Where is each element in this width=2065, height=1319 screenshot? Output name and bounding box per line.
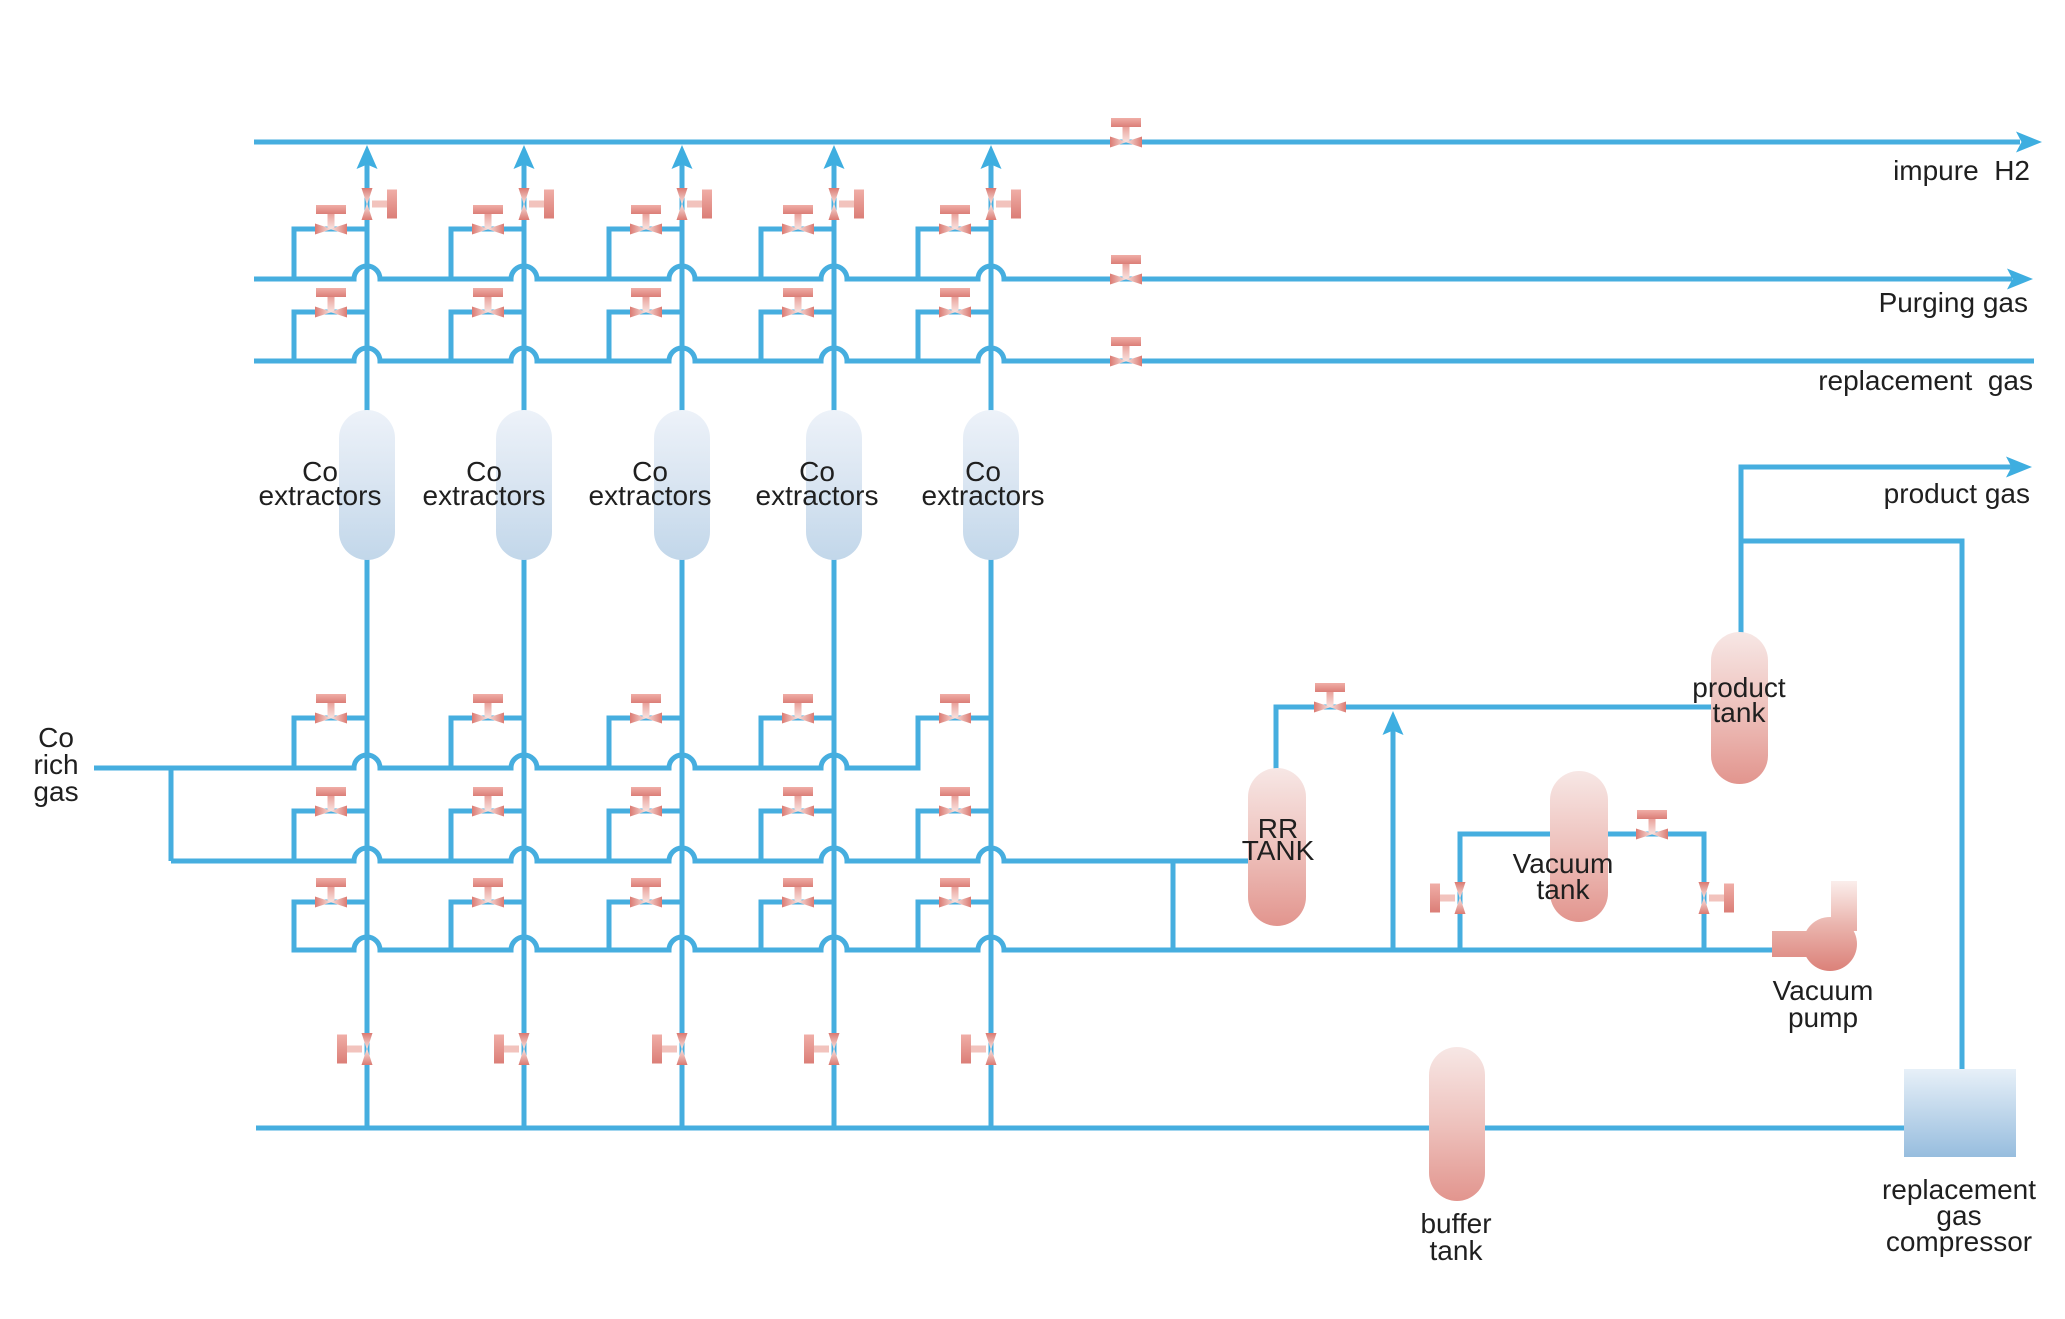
valve replacement gas header — [1110, 337, 1142, 367]
svg-text:Purging gas: Purging gas — [1879, 287, 2028, 318]
valve column 2 row2 branch — [472, 787, 504, 817]
valve column 3 row3 branch — [630, 878, 662, 908]
wire riser to product header with up arrow — [1391, 730, 1396, 950]
valve column 5 row1 branch — [939, 694, 971, 724]
valve column 5 purge branch — [939, 205, 971, 235]
vessel buffer tank — [1429, 1047, 1485, 1201]
wire column 5 row2 branch loop — [918, 811, 991, 861]
svg-text:extractors: extractors — [423, 480, 546, 511]
vessel Co extractor 1 — [339, 410, 395, 560]
wire column 4 replacement branch loop — [761, 312, 834, 361]
wire extractor column 5 upper vertical — [989, 158, 994, 424]
wire column 4 purge branch loop — [761, 229, 834, 279]
valve column 2 row3 branch — [472, 878, 504, 908]
wire column 1 replacement branch loop — [294, 312, 367, 361]
arrow impure H2 outlet — [2016, 132, 2042, 153]
valve vacuum loop right — [1699, 882, 1735, 914]
vessel Co extractor 4 — [806, 410, 862, 560]
svg-text:compressor: compressor — [1886, 1226, 2032, 1257]
valve column 3 purge branch — [630, 205, 662, 235]
wire column 3 replacement branch loop — [609, 312, 682, 361]
valve column 3 bottom isolation — [652, 1033, 688, 1065]
wire extractor column 2 upper vertical — [522, 158, 527, 424]
valve column 2 bottom isolation — [494, 1033, 530, 1065]
wire column 1 row2 branch loop — [294, 811, 367, 861]
valve column 4 row2 branch — [782, 787, 814, 817]
valve column 5 row3 branch — [939, 878, 971, 908]
svg-text:tank: tank — [1713, 697, 1767, 728]
wire extractor column 1 lower vertical — [365, 546, 370, 1128]
wire extractor column 3 upper vertical — [680, 158, 685, 424]
svg-text:gas: gas — [33, 776, 78, 807]
vessel vacuum tank — [1550, 771, 1608, 922]
arrow column 3 into impure H2 line — [672, 145, 693, 169]
valve vacuum loop top — [1636, 810, 1668, 840]
svg-text:extractors: extractors — [756, 480, 879, 511]
wire Co rich gas feed row 1 (ends rising into column 5 branch) — [94, 718, 991, 768]
valve column 4 replacement branch — [782, 288, 814, 318]
wire impure H2 header line — [254, 140, 2020, 145]
vessel RR tank — [1248, 768, 1306, 926]
valve column 1 purge branch — [315, 205, 347, 235]
valve column 5 row2 branch — [939, 787, 971, 817]
wire column 5 row3 branch loop — [918, 902, 991, 950]
svg-text:pump: pump — [1788, 1002, 1858, 1033]
wire product gas line and product tank riser — [1741, 467, 2012, 645]
wire vacuum tank loop — [1460, 834, 1704, 950]
valve column 4 purge branch — [782, 205, 814, 235]
wire column 3 row2 branch loop — [609, 811, 682, 861]
vessel Co extractor 2 — [496, 410, 552, 560]
svg-text:extractors: extractors — [922, 480, 1045, 511]
svg-text:replacement gas: replacement gas — [1818, 365, 2033, 396]
wire column 5 replacement branch loop — [918, 312, 991, 361]
valve column 4 row3 branch — [782, 878, 814, 908]
wire column 5 purge branch loop — [918, 229, 991, 279]
valve column 1 top isolation — [362, 188, 398, 220]
wire column 4 row2 branch loop — [761, 811, 834, 861]
valve column 2 purge branch — [472, 205, 504, 235]
valve column 2 top isolation — [519, 188, 555, 220]
compressor replacement gas compressor — [1904, 1069, 2016, 1157]
svg-text:tank: tank — [1430, 1235, 1484, 1266]
valve product header — [1314, 683, 1346, 713]
wire extractor column 5 lower vertical — [989, 546, 994, 1128]
valve column 1 row3 branch — [315, 878, 347, 908]
vessel Co extractor 3 — [654, 410, 710, 560]
valve column 3 row2 branch — [630, 787, 662, 817]
vessel Co extractor 5 — [963, 410, 1019, 560]
valve column 4 top isolation — [829, 188, 865, 220]
wire extractor column 4 upper vertical — [832, 158, 837, 424]
valve column 5 bottom isolation — [961, 1033, 997, 1065]
valve column 4 row1 branch — [782, 694, 814, 724]
valve column 5 top isolation — [986, 188, 1022, 220]
valve vacuum loop left — [1430, 882, 1466, 914]
valve column 1 bottom isolation — [337, 1033, 373, 1065]
wire extractor column 3 lower vertical — [680, 546, 685, 1128]
valve column 2 row1 branch — [472, 694, 504, 724]
wire extractor column 1 upper vertical — [365, 158, 370, 424]
wire Co rich gas feed drop row1 to row2 — [169, 768, 174, 861]
arrow column 5 into impure H2 line — [981, 145, 1002, 169]
wire row 2 manifold to RR tank — [171, 848, 1252, 861]
valve column 3 top isolation — [677, 188, 713, 220]
wire column 2 replacement branch loop — [451, 312, 524, 361]
wire column 3 row1 branch loop — [609, 718, 682, 768]
wire column 3 purge branch loop — [609, 229, 682, 279]
arrow column 4 into impure H2 line — [824, 145, 845, 169]
wire column 2 row2 branch loop — [451, 811, 524, 861]
vessel product tank — [1711, 632, 1768, 784]
valve column 1 replacement branch — [315, 288, 347, 318]
wire column 4 row1 branch loop — [761, 718, 834, 768]
svg-text:extractors: extractors — [589, 480, 712, 511]
arrow column 2 into impure H2 line — [514, 145, 535, 169]
wire bottom buffer line to compressor — [256, 1126, 1906, 1131]
valve column 3 replacement branch — [630, 288, 662, 318]
svg-text:extractors: extractors — [259, 480, 382, 511]
wire branch to replacement gas compressor — [1741, 541, 1962, 1071]
wire column 1 row1 branch loop — [294, 718, 367, 768]
valve column 1 row1 branch — [315, 694, 347, 724]
wire product header line from RR tank riser — [1276, 707, 1714, 782]
wire column 2 purge branch loop — [451, 229, 524, 279]
svg-text:product gas: product gas — [1884, 478, 2030, 509]
wire column 3 row3 branch loop — [609, 902, 682, 950]
wire column 2 row3 branch loop — [451, 902, 524, 950]
arrow up into product header — [1383, 711, 1404, 735]
arrow product gas outlet — [2006, 457, 2032, 478]
pump vacuum pump — [1772, 881, 1857, 971]
wire column 5 row1 branch top — [918, 716, 991, 721]
wire drop row2 to row3 — [1171, 861, 1176, 950]
wire purging gas header line (hops over extractor columns) — [254, 266, 2012, 279]
wire row 3 manifold to vacuum pump (starts from column 1 branch) — [294, 902, 1776, 950]
svg-text:TANK: TANK — [1242, 835, 1315, 866]
svg-text:tank: tank — [1537, 874, 1591, 905]
wire replacement gas header line (hops over extractor columns) — [254, 348, 2034, 361]
arrow column 1 into impure H2 line — [357, 145, 378, 169]
valve column 4 bottom isolation — [804, 1033, 840, 1065]
valve column 3 row1 branch — [630, 694, 662, 724]
valve column 5 replacement branch — [939, 288, 971, 318]
valve purging gas header — [1110, 255, 1142, 285]
wire extractor column 2 lower vertical — [522, 546, 527, 1128]
valve column 1 row2 branch — [315, 787, 347, 817]
valve column 2 replacement branch — [472, 288, 504, 318]
wire column 1 purge branch loop — [294, 229, 367, 279]
wire extractor column 4 lower vertical — [832, 546, 837, 1128]
svg-text:impure H2: impure H2 — [1893, 155, 2030, 186]
wire column 4 row3 branch loop — [761, 902, 834, 950]
wire column 2 row1 branch loop — [451, 718, 524, 768]
valve impure H2 header — [1110, 118, 1142, 148]
arrow purging gas outlet — [2007, 269, 2033, 290]
